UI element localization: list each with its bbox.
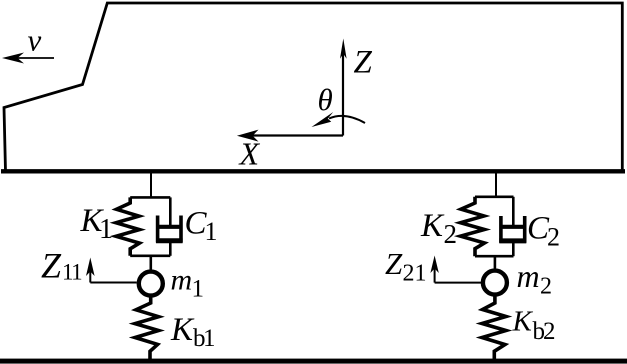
- svg-text:2: 2: [444, 219, 458, 249]
- svg-text:Z: Z: [385, 246, 403, 281]
- svg-text:m: m: [171, 264, 193, 297]
- svg-text:θ: θ: [318, 82, 333, 117]
- svg-text:1: 1: [99, 214, 113, 245]
- svg-text:1: 1: [192, 276, 205, 303]
- svg-text:b2: b2: [533, 318, 556, 345]
- svg-text:v: v: [28, 23, 42, 58]
- svg-text:K: K: [512, 306, 534, 338]
- svg-text:K: K: [420, 208, 445, 244]
- svg-text:Z: Z: [41, 246, 62, 286]
- svg-text:m: m: [517, 258, 540, 294]
- svg-text:2: 2: [547, 223, 560, 252]
- svg-text:K: K: [170, 312, 195, 348]
- svg-text:11: 11: [62, 259, 82, 284]
- svg-text:21: 21: [403, 260, 427, 286]
- svg-text:Z: Z: [354, 45, 373, 81]
- svg-text:X: X: [238, 136, 261, 172]
- svg-text:b1: b1: [193, 325, 214, 352]
- svg-text:1: 1: [205, 217, 218, 246]
- svg-text:2: 2: [540, 274, 552, 300]
